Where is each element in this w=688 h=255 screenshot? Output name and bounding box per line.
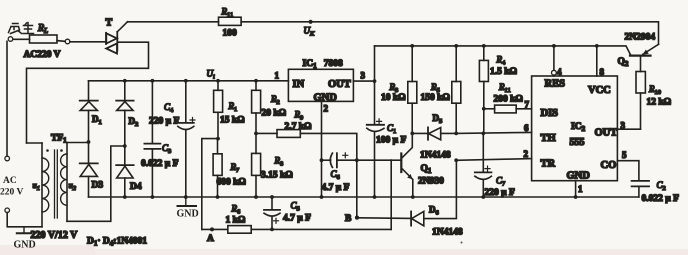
- resistor R4: [479, 44, 488, 109]
- svg-text:CO: CO: [601, 160, 617, 171]
- node A: [210, 227, 214, 231]
- node u2-D1D3 junction: [87, 140, 91, 144]
- diode D2: [116, 81, 133, 165]
- svg-text:D3: D3: [92, 181, 104, 191]
- pin 8 VCC lead: [595, 44, 599, 76]
- resistor R10: [636, 72, 645, 130]
- svg-text:2: 2: [324, 104, 329, 114]
- svg-text:220 µ F: 220 µ F: [149, 117, 179, 127]
- node Q1 collector / D5: [410, 132, 414, 136]
- wire base column to A row: [390, 160, 392, 229]
- svg-text:TR: TR: [541, 159, 556, 170]
- resistor R6 1k: [228, 226, 251, 234]
- svg-text:2N930: 2N930: [418, 177, 444, 187]
- svg-text:IC1 7808: IC1 7808: [303, 59, 343, 70]
- svg-text:6: 6: [524, 123, 529, 133]
- svg-text:1N4148: 1N4148: [420, 151, 451, 161]
- resistor R2: [252, 81, 261, 134]
- svg-text:4.7 µ F: 4.7 µ F: [322, 183, 350, 193]
- svg-text:DIS: DIS: [541, 108, 559, 119]
- svg-text:GND: GND: [314, 93, 338, 104]
- resistor R1: [214, 81, 223, 139]
- pin 6 TH wire: [456, 132, 531, 133]
- node C4 bottom: [184, 195, 188, 199]
- node R9-C6 wire junction: [355, 158, 359, 162]
- load label 负载: [9, 23, 34, 34]
- svg-text:200 kΩ: 200 kΩ: [494, 95, 524, 105]
- regulator IC1 7808 box: [288, 69, 353, 101]
- svg-text:0.022 µ F: 0.022 µ F: [141, 159, 179, 169]
- node R4-R11 junction: [482, 107, 486, 111]
- capacitor C5: [264, 197, 280, 229]
- pin 5 CO wire: [617, 161, 639, 181]
- svg-text:20 kΩ: 20 kΩ: [262, 109, 287, 119]
- wire top rail: [128, 22, 659, 45]
- svg-text:RES: RES: [545, 79, 566, 90]
- wire AC left vertical: [6, 41, 8, 156]
- node Uk: [309, 20, 313, 24]
- capacitor C7: [475, 133, 492, 197]
- node C7 bottom: [481, 195, 485, 199]
- diode D3: [80, 163, 98, 197]
- wire R1R7 junction to A-column: [202, 139, 218, 230]
- wire R4 junction to TH/C7: [483, 109, 485, 134]
- resistor RL: [8, 35, 70, 44]
- node OUT-C1 junction: [373, 79, 377, 83]
- node C3 bottom: [151, 195, 155, 199]
- node D4 bottom: [123, 195, 127, 199]
- ground (middle): [177, 197, 199, 220]
- resistor R11 (100): [219, 17, 242, 25]
- pin 1 lead: [575, 181, 577, 197]
- svg-text:7: 7: [525, 100, 530, 110]
- node C3 top: [151, 79, 155, 83]
- svg-text:VCC: VCC: [588, 85, 611, 96]
- capacitor C1: [367, 81, 384, 197]
- node Q1 emitter bottom: [411, 195, 415, 199]
- node C5 top: [270, 195, 274, 199]
- svg-text:A: A: [207, 234, 214, 244]
- node R2-R8-R9 junction: [254, 132, 258, 136]
- svg-text:600 kΩ: 600 kΩ: [217, 178, 247, 188]
- node R8 bottom: [254, 195, 258, 199]
- transistor Q2 2N2904: [630, 44, 659, 71]
- svg-text:10 kΩ: 10 kΩ: [381, 93, 406, 103]
- svg-text:B: B: [345, 214, 352, 224]
- svg-text:OUT: OUT: [328, 79, 351, 90]
- capacitor C2: [632, 181, 649, 197]
- node TR junction: [454, 158, 458, 162]
- svg-text:8: 8: [600, 67, 605, 77]
- capacitor C4: [178, 81, 195, 197]
- pin 3 wire OUT: [353, 80, 374, 82]
- polarity dots: [46, 149, 63, 152]
- resistor R9 2.7k: [256, 130, 357, 218]
- svg-text:1: 1: [578, 184, 583, 194]
- triac T: [106, 32, 117, 54]
- svg-text:5: 5: [622, 150, 627, 160]
- pin 2 lead IC1 (gnd): [321, 101, 323, 197]
- transformer TF1 primary u1: [27, 143, 49, 227]
- svg-text:3.15 kΩ: 3.15 kΩ: [261, 171, 293, 181]
- node C5-A junction: [270, 228, 274, 232]
- pin 2 TR wire: [456, 159, 531, 161]
- svg-text:1: 1: [275, 71, 280, 81]
- wire top supply bus: [375, 46, 631, 55]
- node R7 bottom: [216, 195, 220, 199]
- svg-text:220 V/12 V: 220 V/12 V: [31, 230, 79, 241]
- resistor R3: [408, 44, 417, 133]
- wire node A row: [202, 228, 391, 230]
- node D5-TH junction: [454, 132, 458, 136]
- svg-text:GND: GND: [567, 171, 591, 182]
- svg-text:GND: GND: [177, 209, 199, 220]
- node C4 top: [184, 79, 188, 83]
- svg-text:220 µ F: 220 µ F: [485, 188, 515, 198]
- wire bottom bus: [89, 196, 639, 198]
- node B: [355, 216, 359, 220]
- wire triac to top rail: [117, 22, 127, 32]
- svg-text:555: 555: [570, 137, 585, 148]
- node R2 top: [254, 79, 258, 83]
- resistor R7 600k: [213, 139, 222, 197]
- pin 4 RES lead: [552, 44, 557, 76]
- label AC 220 V: [0, 176, 23, 198]
- svg-text:15 kΩ: 15 kΩ: [220, 116, 245, 126]
- wire B to D6: [357, 217, 411, 220]
- svg-text:4.7 µ F: 4.7 µ F: [283, 214, 311, 224]
- svg-text:TH: TH: [541, 133, 556, 144]
- transistor Q1 2N930: [391, 133, 413, 197]
- svg-text:2.7 kΩ: 2.7 kΩ: [285, 122, 313, 132]
- svg-text:1 kΩ: 1 kΩ: [226, 216, 246, 226]
- svg-text:2N2904: 2N2904: [625, 33, 656, 43]
- wire AC bottom to transformer: [7, 213, 42, 227]
- svg-text:220 V: 220 V: [0, 188, 23, 198]
- resistor R11 200k: [484, 105, 532, 113]
- svg-text:12 kΩ: 12 kΩ: [647, 98, 672, 108]
- wire load to triac: [70, 41, 106, 43]
- wire triac right return: [27, 42, 149, 143]
- svg-text:0.022 µ F: 0.022 µ F: [642, 194, 680, 204]
- node 555 pin1 bottom: [574, 195, 578, 199]
- node C1 bottom: [373, 195, 377, 199]
- svg-text:T: T: [106, 18, 113, 29]
- svg-text:100 µ F: 100 µ F: [376, 136, 406, 146]
- ground (left): [14, 227, 36, 251]
- resistor R8: [252, 133, 261, 197]
- diode D4: [116, 165, 133, 197]
- transformer secondary u2: [61, 143, 125, 222]
- svg-text:3: 3: [621, 121, 626, 131]
- svg-text:1.5 kΩ: 1.5 kΩ: [490, 67, 518, 77]
- wire bus corner to OUT node: [374, 46, 376, 81]
- svg-text:3: 3: [361, 71, 366, 81]
- node TH-C7 junction: [481, 132, 485, 136]
- svg-text:4: 4: [557, 67, 562, 77]
- node R1-R7 junction: [216, 137, 220, 141]
- pin 3 OUT wire: [617, 128, 640, 130]
- diode D1: [80, 81, 98, 164]
- node IC1-gnd bottom: [320, 195, 324, 199]
- node D2 top: [123, 79, 127, 83]
- svg-text:AC220 V: AC220 V: [24, 50, 61, 60]
- resistor R5: [452, 44, 461, 133]
- wire IN bus: [89, 80, 289, 82]
- svg-text:OUT: OUT: [595, 128, 618, 139]
- svg-text:1N4148: 1N4148: [432, 228, 463, 238]
- svg-text:100: 100: [223, 29, 238, 39]
- diode D5 1N4148: [412, 127, 456, 139]
- node R1 top / Ui: [216, 79, 220, 83]
- svg-text:D4: D4: [130, 182, 142, 192]
- capacitor C3: [144, 81, 160, 197]
- svg-text:IN: IN: [293, 79, 305, 90]
- diode D6 1N4148: [411, 160, 456, 226]
- svg-text:AC: AC: [3, 176, 17, 186]
- svg-text:150 kΩ: 150 kΩ: [421, 93, 451, 103]
- capacitor C6: [320, 153, 392, 168]
- svg-text:GND: GND: [14, 240, 36, 251]
- timer IC2 555 box: [532, 76, 618, 181]
- AC source terminals: [5, 156, 10, 212]
- svg-text:2: 2: [524, 149, 529, 159]
- transformer core: [55, 150, 58, 218]
- node u2-D2D4 junction: [123, 144, 127, 148]
